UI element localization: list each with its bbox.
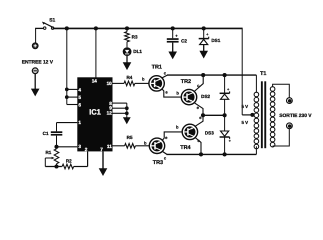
svg-text:TR2: TR2 (181, 79, 191, 85)
svg-text:14: 14 (92, 78, 98, 83)
svg-text:4: 4 (78, 88, 81, 93)
svg-text:DS3: DS3 (205, 131, 214, 136)
svg-text:+: + (227, 87, 229, 91)
svg-text:R5: R5 (127, 135, 133, 140)
svg-text:+: + (229, 139, 231, 143)
svg-text:R1: R1 (45, 150, 51, 155)
svg-text:+: + (206, 33, 208, 37)
svg-text:12: 12 (107, 111, 113, 116)
svg-text:7: 7 (100, 147, 103, 152)
svg-text:R4: R4 (126, 75, 132, 80)
svg-text:TR3: TR3 (153, 160, 163, 166)
svg-text:5: 5 (78, 95, 81, 100)
svg-text:DL1: DL1 (133, 49, 142, 54)
svg-text:T1: T1 (260, 71, 266, 77)
svg-text:SORTIE 230 V: SORTIE 230 V (279, 113, 312, 119)
svg-text:R3: R3 (132, 34, 138, 39)
svg-text:10: 10 (107, 81, 113, 86)
svg-text:1: 1 (78, 120, 81, 125)
svg-text:C2: C2 (181, 39, 187, 44)
svg-text:IC1: IC1 (89, 107, 102, 116)
svg-text:DS1: DS1 (211, 38, 220, 43)
svg-text:TR4: TR4 (180, 145, 191, 151)
svg-text:11: 11 (107, 144, 112, 149)
svg-text:2: 2 (85, 147, 88, 152)
svg-text:3: 3 (78, 144, 81, 149)
svg-text:5 V: 5 V (242, 120, 249, 125)
svg-text:R2: R2 (66, 158, 72, 163)
svg-text:TR1: TR1 (152, 65, 162, 71)
svg-text:5 V: 5 V (242, 104, 249, 109)
svg-text:DS2: DS2 (201, 94, 210, 99)
svg-text:S1: S1 (49, 17, 55, 23)
svg-text:6: 6 (78, 103, 81, 108)
svg-text:C1: C1 (43, 131, 49, 136)
svg-text:ENTREE 12 V: ENTREE 12 V (22, 60, 54, 66)
